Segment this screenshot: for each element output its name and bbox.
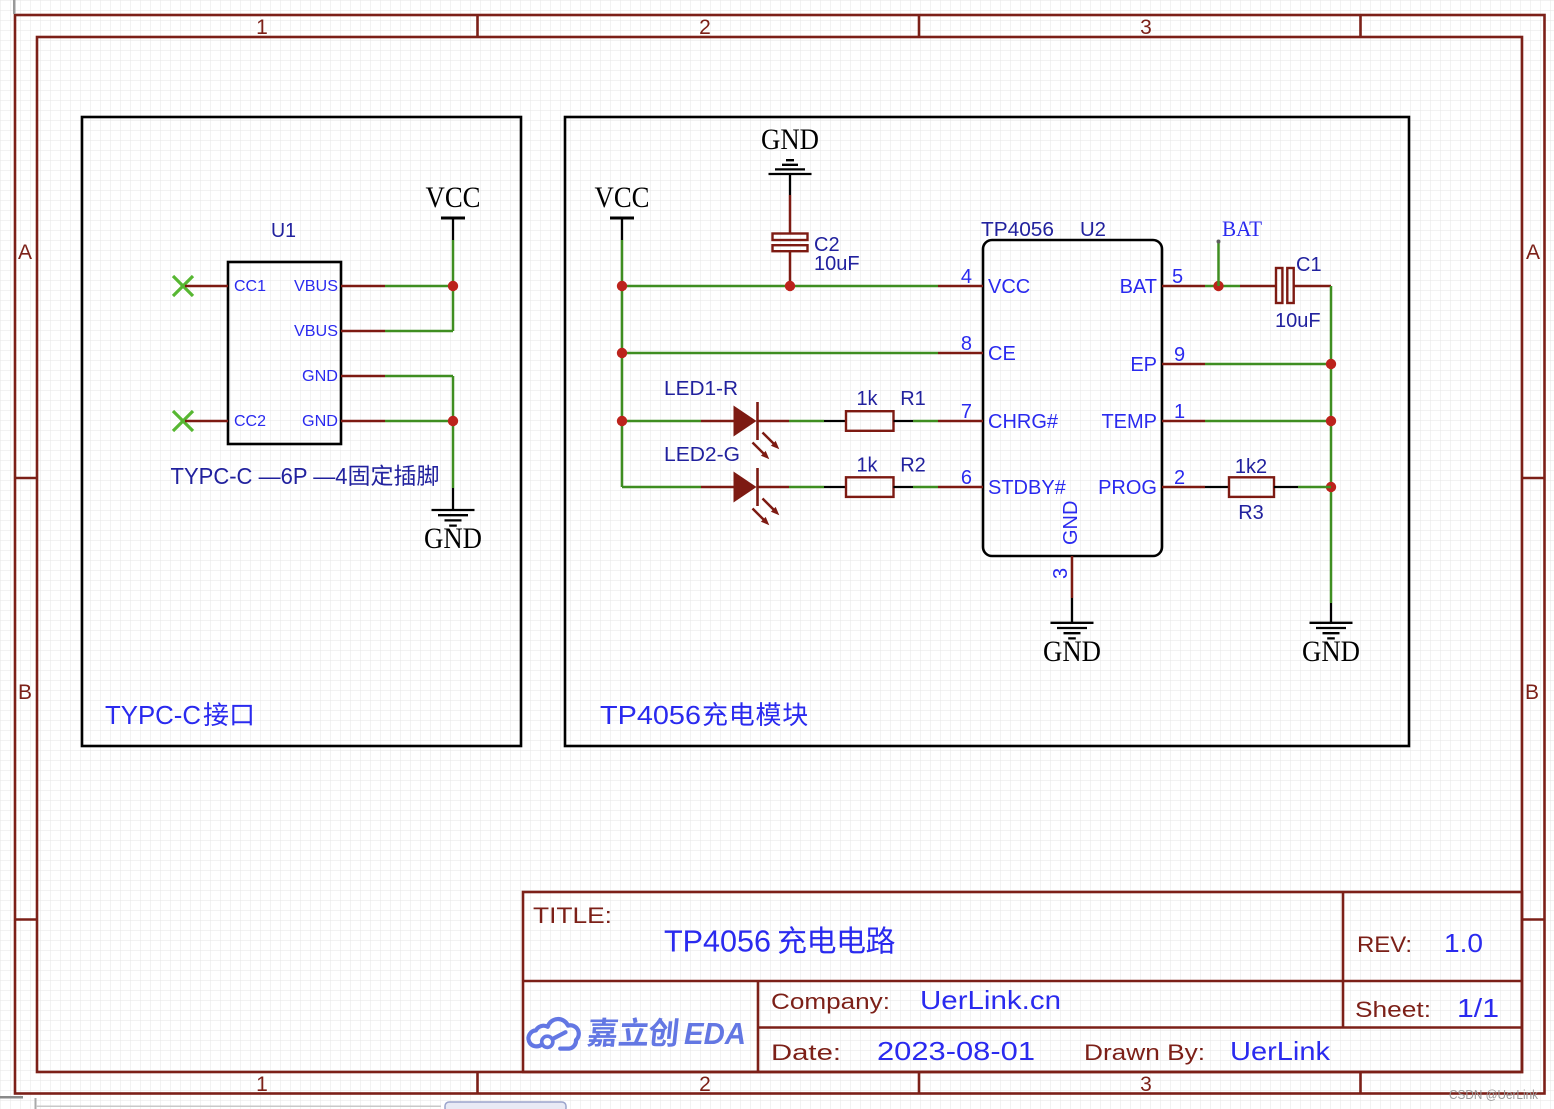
svg-text:BAT: BAT [1120, 276, 1157, 298]
pin stub 7 CHRG# [938, 420, 983, 423]
junction CE row [617, 348, 627, 358]
junction PROG [1326, 482, 1336, 492]
wire TEMP row [1205, 420, 1331, 423]
wire GND2 to GND rail [385, 420, 453, 423]
svg-text:7: 7 [961, 401, 972, 423]
pin stub 6 STDBY# [938, 486, 983, 489]
capacitor C2 [789, 195, 792, 234]
bottom scrollbar artifacts [0, 1096, 23, 1099]
svg-text:1: 1 [1174, 401, 1185, 423]
svg-text:GND: GND [761, 123, 819, 156]
svg-text:VBUS: VBUS [294, 323, 338, 340]
svg-text:1.0: 1.0 [1444, 928, 1483, 958]
junction LED1 row [617, 416, 627, 426]
svg-text:R1: R1 [900, 388, 926, 410]
JLCEDA logo text 嘉立创EDA [587, 1017, 679, 1047]
svg-text:3: 3 [1050, 568, 1072, 579]
svg-text:GND: GND [1060, 501, 1082, 545]
svg-text:EP: EP [1130, 354, 1157, 376]
svg-text:1k2: 1k2 [1235, 456, 1267, 478]
svg-text:Date:: Date: [771, 1040, 841, 1065]
resistor R1 [824, 420, 846, 422]
svg-text:TP4056: TP4056 [600, 700, 701, 730]
wire R2 to pin6 [913, 486, 938, 489]
power flag VCC [441, 217, 465, 220]
power flag VCC section2 [610, 217, 634, 220]
wire LED1 to R1 [789, 420, 824, 423]
wire LED2 to R2 [789, 486, 824, 489]
title block outline [523, 892, 1522, 1072]
junction TEMP [1326, 416, 1336, 426]
svg-text:LED2-G: LED2-G [664, 444, 740, 466]
svg-text:1/1: 1/1 [1457, 993, 1499, 1023]
svg-text:TITLE:: TITLE: [533, 903, 612, 928]
junction VCC row [617, 281, 627, 291]
svg-text:GND: GND [302, 368, 338, 385]
svg-text:8: 8 [961, 333, 972, 355]
svg-text:10uF: 10uF [1275, 310, 1321, 332]
svg-text:CSDN @UerLink: CSDN @UerLink [1449, 1088, 1539, 1102]
JLCEDA logo cloud icon [528, 1019, 578, 1049]
no-connect flag CC1 [173, 276, 193, 296]
pin stub 4 VCC [938, 285, 983, 288]
svg-text:6: 6 [961, 467, 972, 489]
svg-text:VBUS: VBUS [294, 278, 338, 295]
resistor R3 [1205, 486, 1229, 488]
svg-text:VCC: VCC [426, 181, 481, 214]
svg-text:BAT: BAT [1222, 216, 1263, 241]
wire R3 to rail [1298, 486, 1331, 489]
svg-text:U2: U2 [1080, 219, 1106, 241]
svg-text:3: 3 [1140, 16, 1152, 39]
svg-text:U1: U1 [271, 220, 296, 242]
svg-text:CC2: CC2 [234, 413, 266, 430]
svg-text:PROG: PROG [1098, 477, 1157, 499]
svg-text:GND: GND [424, 522, 482, 555]
wire GND1 to GND rail [385, 375, 453, 378]
svg-text:STDBY#: STDBY# [988, 477, 1067, 499]
connector U1 body [228, 262, 341, 444]
svg-text:4: 4 [961, 266, 972, 288]
svg-text:CC1: CC1 [234, 278, 266, 295]
svg-text:VCC: VCC [595, 181, 650, 214]
svg-text:1k: 1k [856, 388, 878, 410]
pin stub CC2 [185, 420, 228, 423]
svg-text:GND: GND [1302, 635, 1360, 668]
svg-text:CE: CE [988, 343, 1016, 365]
wire VBUS1 to VCC rail [385, 285, 453, 288]
LED2 arrows [753, 499, 774, 520]
ground symbol U2 [1071, 598, 1073, 623]
svg-text:VCC: VCC [988, 276, 1030, 298]
svg-text:2: 2 [699, 16, 711, 39]
ground symbol right [1330, 603, 1332, 623]
wire VCC row to pin4 [622, 285, 938, 288]
svg-text:TYPC-C —6P —4: TYPC-C —6P —4 [171, 463, 348, 489]
pin stub 3 GND [1071, 556, 1074, 598]
section box TP4056充电模块 [565, 117, 1409, 746]
svg-text:REV:: REV: [1357, 932, 1412, 957]
pin stub GND2 [341, 420, 385, 423]
svg-text:A: A [18, 241, 32, 264]
svg-text:1: 1 [256, 1073, 268, 1096]
pin stub 5 BAT [1162, 285, 1205, 288]
pin stub 9 EP [1162, 363, 1205, 366]
svg-text:TP4056: TP4056 [664, 924, 771, 959]
junction GND2 [448, 416, 458, 426]
IC U2 TP4056 body [983, 240, 1162, 556]
junction EP [1326, 359, 1336, 369]
pin stub GND1 [341, 375, 385, 378]
wire BAT rail vertical [1330, 286, 1333, 603]
svg-text:1: 1 [256, 16, 268, 39]
svg-text:CHRG#: CHRG# [988, 411, 1059, 433]
svg-text:Drawn By:: Drawn By: [1084, 1040, 1205, 1065]
svg-text:Company:: Company: [771, 989, 890, 1014]
svg-text:R2: R2 [900, 455, 926, 477]
LED1 arrows [753, 433, 774, 454]
svg-text:C1: C1 [1296, 254, 1322, 276]
svg-text:GND: GND [1043, 635, 1101, 668]
wire to LED2 [622, 486, 701, 489]
title block sheet title TP4056充电电路 [664, 924, 895, 959]
svg-text:1k: 1k [856, 455, 878, 477]
svg-text:9: 9 [1174, 344, 1185, 366]
note text TYPC-C —6P —4固定插脚 [171, 463, 438, 489]
LED2 diode [701, 486, 734, 489]
pin stub VBUS2 [341, 330, 385, 333]
wire GND rail vertical [452, 376, 455, 488]
resistor R2 [824, 486, 846, 488]
wire R1 to pin7 [913, 420, 938, 423]
svg-text:LED1-R: LED1-R [664, 378, 738, 400]
pin stub 1 TEMP [1162, 420, 1205, 423]
wire VCC rail vertical section2 [621, 240, 624, 487]
LED1 diode [701, 420, 734, 423]
svg-text:2: 2 [1174, 467, 1185, 489]
wire to LED1 [622, 420, 701, 423]
svg-text:Sheet:: Sheet: [1355, 997, 1431, 1022]
net label stub BAT [1217, 243, 1220, 286]
svg-text:B: B [18, 681, 32, 704]
svg-text:TEMP: TEMP [1101, 411, 1157, 433]
junction BAT [1213, 281, 1223, 291]
junction C2-VCC row [785, 281, 795, 291]
svg-text:TP4056: TP4056 [981, 219, 1054, 241]
section box TYPC-C接口 [82, 117, 521, 746]
pin stub CC1 [185, 285, 228, 288]
section title TYPC-C接口 [105, 700, 252, 730]
wire BAT row [1205, 285, 1240, 288]
junction VBUS-VCC [448, 281, 458, 291]
pin stub 8 CE [938, 352, 983, 355]
pin stub VBUS1 [341, 285, 385, 288]
svg-text:2023-08-01: 2023-08-01 [877, 1036, 1035, 1066]
svg-text:5: 5 [1172, 266, 1183, 288]
svg-text:B: B [1525, 681, 1539, 704]
svg-text:10uF: 10uF [814, 253, 860, 275]
wire VCC rail vertical [452, 240, 455, 331]
capacitor C1 [1240, 285, 1276, 288]
svg-text:A: A [1526, 241, 1540, 264]
svg-text:UerLink.cn: UerLink.cn [920, 985, 1061, 1015]
svg-text:GND: GND [302, 413, 338, 430]
svg-text:EDA: EDA [684, 1016, 746, 1051]
svg-text:UerLink: UerLink [1230, 1036, 1331, 1066]
ground symbol section1 [452, 488, 454, 510]
svg-text:R3: R3 [1238, 502, 1264, 524]
wire EP row [1205, 363, 1331, 366]
pin stub 2 PROG [1162, 486, 1205, 489]
svg-text:2: 2 [699, 1073, 711, 1096]
top-left gray artifact [13, 0, 16, 14]
svg-text:3: 3 [1140, 1073, 1152, 1096]
section title TP4056充电模块 [600, 700, 807, 730]
no-connect flag CC2 [173, 411, 193, 431]
wire VBUS2 to VCC rail [385, 330, 453, 333]
svg-text:TYPC-C: TYPC-C [105, 700, 201, 730]
wire CE row to pin8 [622, 352, 938, 355]
